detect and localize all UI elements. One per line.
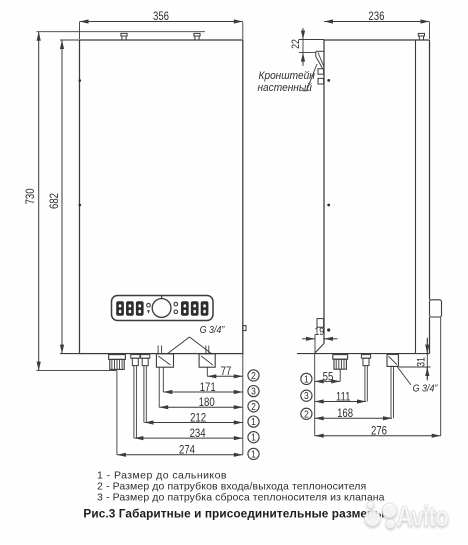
svg-text:настенный: настенный bbox=[258, 81, 313, 93]
svg-text:111: 111 bbox=[336, 390, 351, 403]
svg-text:234: 234 bbox=[190, 427, 206, 440]
svg-text:180: 180 bbox=[199, 396, 215, 409]
svg-text:Avito: Avito bbox=[397, 499, 449, 532]
svg-text:212: 212 bbox=[190, 411, 206, 424]
svg-text:77: 77 bbox=[221, 365, 232, 378]
svg-text:22: 22 bbox=[290, 39, 302, 49]
svg-text:2: 2 bbox=[251, 401, 256, 412]
svg-text:730: 730 bbox=[24, 188, 37, 204]
svg-text:236: 236 bbox=[368, 10, 384, 23]
svg-text:682: 682 bbox=[48, 193, 61, 209]
svg-text:31: 31 bbox=[416, 357, 428, 367]
svg-text:1: 1 bbox=[304, 374, 309, 385]
svg-text:1: 1 bbox=[251, 449, 256, 460]
svg-text:Рис.3 Габаритные и присоединит: Рис.3 Габаритные и присоединительные раз… bbox=[83, 507, 384, 521]
svg-text:19: 19 bbox=[314, 326, 324, 338]
svg-text:171: 171 bbox=[200, 381, 216, 394]
svg-text:55: 55 bbox=[323, 370, 334, 383]
svg-text:3: 3 bbox=[251, 386, 256, 397]
svg-text:168: 168 bbox=[337, 407, 353, 420]
svg-text:276: 276 bbox=[371, 425, 387, 438]
svg-text:Кронштейн: Кронштейн bbox=[259, 70, 316, 82]
svg-text:356: 356 bbox=[153, 10, 169, 23]
svg-text:G 3/4”: G 3/4” bbox=[413, 383, 438, 395]
svg-text:G 3/4”: G 3/4” bbox=[200, 324, 225, 336]
svg-text:274: 274 bbox=[179, 444, 195, 457]
svg-text:1: 1 bbox=[251, 432, 256, 443]
svg-text:3: 3 bbox=[304, 391, 309, 402]
svg-text:3 - Размер до патрубка сброса: 3 - Размер до патрубка сброса теплоносит… bbox=[97, 491, 385, 503]
svg-text:1: 1 bbox=[251, 416, 256, 427]
svg-text:2: 2 bbox=[304, 409, 309, 420]
svg-text:2: 2 bbox=[251, 370, 256, 381]
